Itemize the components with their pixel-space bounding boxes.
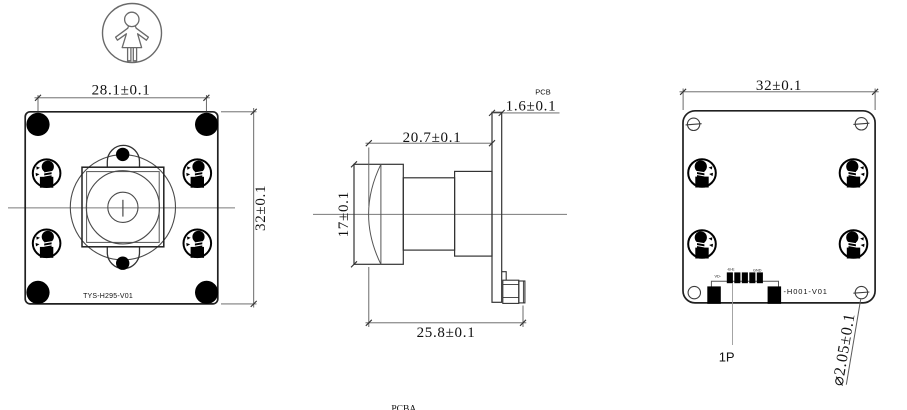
- back view: connector pads: [727, 272, 763, 283]
- front view: lens mount inner square: [87, 172, 160, 243]
- svg-text:-H001-V01: -H001-V01: [784, 287, 828, 296]
- logo circle with girl figure: [103, 4, 162, 63]
- dimension 20.7±0.1: [366, 130, 496, 206]
- front view: mounting hole top-left: [26, 113, 49, 136]
- front view: lens holder bottom tab: [107, 247, 139, 269]
- back view: corner hole bottom-right: [853, 286, 869, 298]
- side view: lens element edge: [380, 164, 382, 264]
- front view: mounting hole top-right: [195, 113, 218, 136]
- leader line pin 1: [732, 284, 734, 346]
- front view: PCB outline: [25, 112, 218, 304]
- svg-text:28.1±0.1: 28.1±0.1: [92, 83, 151, 99]
- side view: connector body lines: [503, 284, 519, 286]
- svg-text:-B-E: -B-E: [727, 268, 735, 272]
- svg-text:32±0.1: 32±0.1: [253, 185, 269, 231]
- dimension 1.6±0.1 PCB: [489, 88, 560, 116]
- leader and dimension hole diameter 2.05: [830, 299, 861, 387]
- front view: bottom tab hole: [116, 257, 129, 270]
- front view: lens barrel circle: [86, 171, 159, 244]
- back view: connector tab right: [768, 286, 782, 303]
- front view: screw bottom-left: [33, 230, 61, 258]
- front view: screw top-left: [33, 159, 61, 187]
- front view: top tab hole: [116, 148, 129, 161]
- front view: screw top-right: [184, 159, 212, 187]
- side view: connector body: [503, 280, 519, 303]
- dimension 17±0.1: [336, 161, 357, 267]
- dimension 32±0.1 back view: [680, 78, 879, 110]
- back view: screw bottom-left: [688, 230, 716, 258]
- svg-text:TYS-H295-V01: TYS-H295-V01: [83, 293, 133, 300]
- svg-text:GND: GND: [753, 269, 762, 273]
- side view: horizontal centerline: [313, 213, 567, 215]
- svg-text:VD-: VD-: [715, 275, 722, 279]
- side view: mount ring: [455, 171, 492, 256]
- back view: PCB outline: [683, 111, 875, 303]
- svg-text:1P: 1P: [719, 350, 735, 365]
- back view: corner hole top-left: [686, 118, 702, 130]
- front view: lens aperture circle: [108, 192, 138, 222]
- back view: screw top-right: [840, 159, 868, 187]
- back view: corner hole bottom-left plain: [688, 286, 700, 298]
- svg-text:1.6±0.1: 1.6±0.1: [506, 98, 557, 114]
- dimension 32±0.1 front view: [221, 108, 269, 308]
- front view: horizontal centerline: [8, 207, 235, 209]
- side view: connector cap: [519, 281, 525, 303]
- svg-text:17±0.1: 17±0.1: [336, 191, 352, 237]
- dimension 25.8±0.1: [366, 267, 527, 341]
- front view: mounting hole bottom-left: [26, 281, 49, 304]
- back view: screw top-left: [688, 159, 716, 187]
- front view: lens flange circle: [70, 155, 175, 260]
- side view: barrel: [403, 178, 454, 250]
- back view: screw bottom-right: [840, 230, 868, 258]
- front view: mounting hole bottom-right: [195, 281, 218, 304]
- side view: front lens cap: [354, 164, 403, 264]
- svg-text:25.8±0.1: 25.8±0.1: [417, 325, 476, 341]
- front view: lens holder top tab: [107, 145, 139, 167]
- svg-text:PCB: PCB: [535, 88, 550, 97]
- svg-text:20.7±0.1: 20.7±0.1: [403, 130, 462, 146]
- side view: PCB: [492, 112, 502, 302]
- svg-text:PCBA: PCBA: [391, 405, 416, 410]
- front view: screw bottom-right: [184, 230, 212, 258]
- side view: lens surface arc: [369, 164, 381, 264]
- dimension 28.1±0.1: [35, 83, 210, 112]
- svg-text:⌀2.05±0.1: ⌀2.05±0.1: [830, 312, 859, 387]
- side view: connector step: [502, 272, 507, 281]
- svg-text:32±0.1: 32±0.1: [756, 78, 802, 94]
- back view: connector tab left: [707, 286, 721, 303]
- back view: connector outline: [711, 281, 778, 302]
- back view: corner hole top-right: [853, 118, 869, 130]
- front view: lens center mark: [122, 200, 124, 217]
- front view: lens mount outer square: [82, 167, 164, 247]
